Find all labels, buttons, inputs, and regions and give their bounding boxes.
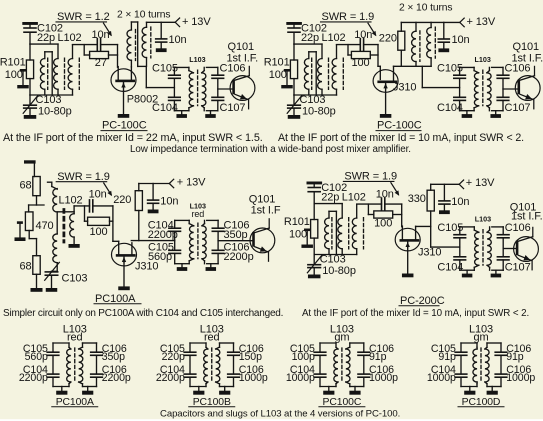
svg-text:gm: gm bbox=[473, 332, 488, 344]
svg-text:C105: C105 bbox=[152, 63, 178, 75]
svg-text:1000p: 1000p bbox=[239, 372, 268, 384]
svg-text:100: 100 bbox=[374, 218, 392, 230]
svg-text:10n: 10n bbox=[451, 196, 469, 208]
svg-text:C103: C103 bbox=[320, 254, 346, 266]
svg-text:22p: 22p bbox=[37, 32, 55, 44]
svg-text:PC-100C: PC-100C bbox=[377, 120, 422, 132]
svg-text:gm: gm bbox=[334, 332, 349, 344]
svg-text:+ 13V: + 13V bbox=[467, 16, 496, 28]
svg-text:C107: C107 bbox=[505, 102, 531, 114]
svg-text:1st I.F: 1st I.F bbox=[251, 204, 281, 216]
svg-text:Simpler circuit only on PC100A: Simpler circuit only on PC100A with C104… bbox=[3, 308, 283, 319]
svg-text:100: 100 bbox=[351, 57, 369, 69]
svg-text:J310: J310 bbox=[418, 247, 441, 259]
svg-text:+ 13V: + 13V bbox=[466, 177, 495, 189]
svg-text:L102: L102 bbox=[322, 32, 346, 44]
svg-text:350p: 350p bbox=[102, 351, 125, 363]
svg-text:2200p: 2200p bbox=[19, 372, 48, 384]
svg-text:SWR = 1.9: SWR = 1.9 bbox=[344, 171, 397, 183]
svg-text:R101: R101 bbox=[284, 216, 310, 228]
svg-text:C107: C107 bbox=[220, 102, 246, 114]
svg-text:10n: 10n bbox=[354, 29, 372, 41]
svg-text:C104: C104 bbox=[437, 261, 463, 273]
svg-text:At the IF port of the mixer Id: At the IF port of the mixer Id = 10 mA, … bbox=[302, 308, 529, 319]
svg-text:220: 220 bbox=[379, 33, 397, 45]
svg-text:10n: 10n bbox=[89, 188, 107, 200]
svg-text:C104: C104 bbox=[152, 102, 178, 114]
svg-text:91p: 91p bbox=[506, 351, 524, 363]
svg-text:L103: L103 bbox=[475, 55, 491, 64]
svg-text:PC-100C: PC-100C bbox=[102, 120, 147, 132]
svg-text:1st I.F.: 1st I.F. bbox=[511, 211, 543, 223]
svg-text:Capacitors and slugs of L103 a: Capacitors and slugs of L103 at the 4 ve… bbox=[160, 408, 400, 419]
svg-text:1st I.F.: 1st I.F. bbox=[512, 52, 543, 64]
svg-text:C104: C104 bbox=[437, 102, 463, 114]
svg-text:red: red bbox=[204, 332, 220, 344]
svg-text:J310: J310 bbox=[393, 82, 416, 94]
svg-text:R101: R101 bbox=[0, 56, 26, 68]
svg-text:100: 100 bbox=[89, 226, 107, 238]
svg-text:10n: 10n bbox=[160, 196, 178, 208]
svg-text:C103: C103 bbox=[62, 272, 88, 284]
svg-text:10n: 10n bbox=[376, 188, 394, 200]
svg-text:68: 68 bbox=[19, 179, 31, 191]
svg-text:Q101: Q101 bbox=[228, 41, 255, 53]
svg-text:L103: L103 bbox=[189, 55, 205, 64]
svg-text:red: red bbox=[192, 209, 205, 219]
svg-text:220: 220 bbox=[113, 194, 131, 206]
svg-text:C106: C106 bbox=[505, 222, 531, 234]
svg-text:2200p: 2200p bbox=[156, 372, 185, 384]
svg-text:27: 27 bbox=[95, 57, 107, 69]
svg-text:1000p: 1000p bbox=[506, 372, 535, 384]
svg-text:1000p: 1000p bbox=[286, 372, 315, 384]
svg-text:10n: 10n bbox=[452, 34, 470, 46]
svg-text:R101: R101 bbox=[264, 56, 290, 68]
svg-text:91p: 91p bbox=[369, 351, 387, 363]
svg-text:C103: C103 bbox=[36, 94, 62, 106]
svg-text:2 × 10 turns: 2 × 10 turns bbox=[117, 10, 170, 21]
svg-text:At the IF port of the mixer Id: At the IF port of the mixer Id = 10 mA, … bbox=[278, 132, 524, 144]
svg-text:At the IF port of the mixer Id: At the IF port of the mixer Id = 22 mA, … bbox=[3, 132, 263, 144]
svg-text:1000p: 1000p bbox=[369, 372, 398, 384]
svg-text:1000p: 1000p bbox=[427, 372, 456, 384]
svg-text:C107: C107 bbox=[505, 261, 531, 273]
svg-text:220p: 220p bbox=[162, 351, 185, 363]
svg-text:470: 470 bbox=[36, 220, 54, 232]
svg-text:Low impedance termination with: Low impedance termination with a wide-ba… bbox=[130, 144, 411, 155]
svg-text:68: 68 bbox=[19, 260, 31, 272]
svg-text:PC-200C: PC-200C bbox=[400, 295, 445, 307]
svg-text:PC100A: PC100A bbox=[95, 293, 136, 305]
svg-text:C103: C103 bbox=[300, 94, 326, 106]
svg-text:SWR = 1.2: SWR = 1.2 bbox=[57, 11, 110, 23]
svg-text:330: 330 bbox=[408, 193, 426, 205]
svg-text:2200p: 2200p bbox=[102, 372, 131, 384]
svg-text:L102: L102 bbox=[59, 194, 83, 206]
svg-text:10-80p: 10-80p bbox=[302, 106, 336, 118]
svg-text:100p: 100p bbox=[292, 351, 315, 363]
svg-text:red: red bbox=[67, 332, 83, 344]
svg-text:2 × 10 turns: 2 × 10 turns bbox=[399, 3, 452, 14]
svg-text:91p: 91p bbox=[438, 351, 456, 363]
svg-text:10n: 10n bbox=[169, 34, 187, 46]
svg-text:10-80p: 10-80p bbox=[38, 106, 72, 118]
svg-text:+ 13V: + 13V bbox=[182, 16, 211, 28]
svg-text:22p: 22p bbox=[301, 32, 319, 44]
svg-text:350p: 350p bbox=[224, 229, 248, 241]
svg-text:2200p: 2200p bbox=[224, 251, 254, 263]
svg-text:2200p: 2200p bbox=[148, 229, 178, 241]
svg-text:Q101: Q101 bbox=[513, 41, 540, 53]
svg-text:22p: 22p bbox=[321, 191, 339, 203]
svg-text:L102: L102 bbox=[342, 191, 366, 203]
svg-text:C105: C105 bbox=[437, 63, 463, 75]
svg-text:560p: 560p bbox=[25, 351, 48, 363]
svg-text:C105: C105 bbox=[437, 222, 463, 234]
svg-text:150p: 150p bbox=[239, 351, 262, 363]
svg-text:SWR = 1.9: SWR = 1.9 bbox=[322, 11, 375, 23]
svg-text:1st I.F.: 1st I.F. bbox=[227, 52, 259, 64]
svg-text:10-80p: 10-80p bbox=[322, 265, 356, 277]
svg-text:10n: 10n bbox=[92, 29, 110, 41]
svg-text:SWR = 1.9: SWR = 1.9 bbox=[57, 171, 110, 183]
svg-text:L103: L103 bbox=[475, 215, 491, 224]
svg-text:560p: 560p bbox=[148, 251, 172, 263]
svg-text:+ 13V: + 13V bbox=[177, 176, 206, 188]
svg-text:L102: L102 bbox=[58, 32, 82, 44]
